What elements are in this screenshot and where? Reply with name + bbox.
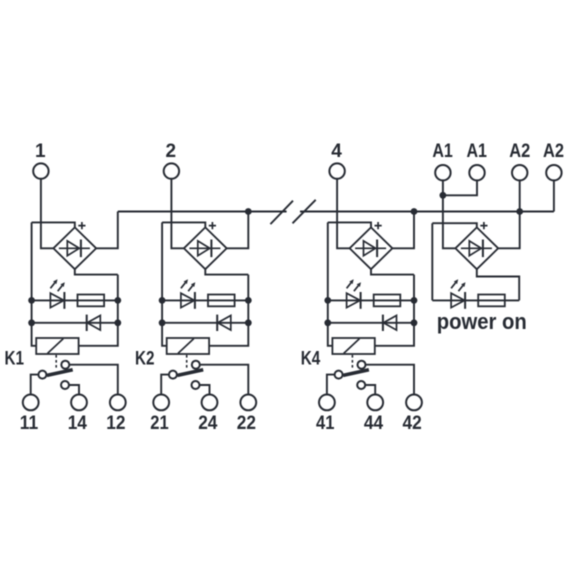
wire power left branch [431,223,433,300]
svg-text:1: 1 [35,141,46,162]
wire suppressor diode row K2 [162,322,248,324]
wire A2 to bus [519,180,521,211]
polarity + mark K1 [78,222,85,229]
wire pole to terminal 41 [327,375,335,395]
terminal 11 [23,395,39,411]
contact NO terminal point K4 [357,381,365,389]
wire NO contact to terminal 24 [200,385,210,395]
wire NC contact to terminal 42 [366,365,414,395]
terminal A1 second [469,165,484,180]
wire bridge bottom vertex to right branch K4 [371,269,414,274]
wire left branch K4 [328,222,333,345]
contact NC terminal point K1 [61,361,69,369]
svg-text:41: 41 [316,413,335,434]
wire NO contact to terminal 14 [69,385,79,395]
junction diode row left K4 [324,319,331,326]
bridge rectifier diamond power [455,227,498,269]
junction bus channel K4 [411,208,418,215]
relay coil K2 [167,338,209,354]
switch lever K4 [343,370,369,376]
diode inside bridge K1 [59,247,90,249]
wire bridge right vertex to bus K1 [96,212,118,249]
wire bridge bottom vertex to right branch K2 [205,269,248,274]
junction diode row left K2 [159,319,166,326]
LED K4 [347,293,361,307]
wire top horizontal to bridge + vertex K1 [32,222,75,227]
svg-text:22: 22 [237,413,256,434]
terminal 21 [153,395,169,411]
svg-text:power on: power on [437,309,527,334]
terminal 42 [406,395,422,411]
wire left branch K1 [32,222,37,345]
junction diode row right K1 [114,319,121,326]
wire LED row K2 [162,299,248,301]
svg-text:K4: K4 [301,349,321,370]
wire suppressor diode row K4 [328,322,414,324]
switch lever K2 [177,370,203,376]
svg-text:11: 11 [20,413,39,434]
contact NO terminal point K2 [192,381,200,389]
terminal 4 [329,163,344,178]
wire terminal 4 to bridge left vertex [337,179,350,249]
wire LED row K1 [32,299,118,301]
svg-text:21: 21 [150,413,169,434]
bridge rectifier diamond K1 [53,227,96,269]
wire right branch K1 [79,275,118,346]
wire right branch K2 [209,275,248,346]
polarity + mark K4 [375,222,382,229]
junction LED row left K2 [159,297,166,304]
wire suppressor diode row K1 [32,322,118,324]
LED K1 [50,293,64,307]
diode inside bridge power [461,247,492,249]
junction LED row left K4 [324,297,331,304]
contact NC terminal point K4 [358,361,366,369]
svg-text:A2: A2 [509,141,530,162]
wire A2 second to bus [553,180,555,211]
svg-text:K2: K2 [135,349,155,370]
wire top horizontal to bridge + vertex K4 [328,222,371,227]
wire A2 bus right segment [300,211,554,213]
terminal 14 [71,395,87,411]
polarity + mark K2 [209,222,216,229]
junction LED row left K1 [28,297,35,304]
wire bridge right vertex to bus K2 [227,212,249,249]
relay coil K1 [36,338,78,354]
terminal 44 [367,395,383,411]
terminal A2 [512,165,527,180]
junction diode row left K1 [28,319,35,326]
switch lever K1 [47,370,73,376]
terminal 41 [319,395,335,411]
bridge rectifier diamond K2 [184,227,227,269]
wire LED row K4 [328,299,414,301]
wire power top horizontal to bridge + vertex [432,223,477,227]
svg-text:4: 4 [331,141,342,162]
contact NO terminal point K1 [61,381,69,389]
svg-text:2: 2 [166,141,177,162]
wire top horizontal to bridge + vertex K2 [162,222,205,227]
mechanical link K2 [186,355,188,369]
wire A1 to bridge left vertex [443,180,456,248]
wire terminal 1 to bridge left vertex [41,179,54,249]
terminal A1 [435,165,450,180]
diode inside bridge K2 [189,247,220,249]
svg-text:K1: K1 [5,349,25,370]
terminal 2 [164,163,179,178]
wire A2 bus left segment [118,211,287,213]
svg-text:A1: A1 [466,141,487,162]
wire right branch K4 [375,275,414,346]
junction LED row right K4 [411,297,418,304]
junction bus channel K2 [245,208,252,215]
wire bridge right vertex to bus K4 [392,212,414,249]
terminal 24 [202,395,218,411]
LED K2 [181,293,195,307]
svg-text:24: 24 [198,413,218,434]
wire terminal 2 to bridge left vertex [171,179,184,249]
terminal 22 [240,395,256,411]
line break mark slash 1 [270,201,293,224]
contact NC terminal point K2 [192,361,200,369]
junction diode row right K2 [245,319,252,326]
wire pole to terminal 11 [31,375,39,395]
resistor K1 [78,295,105,307]
junction bus A2 node [516,208,523,215]
mechanical link K4 [351,355,353,369]
mechanical link K1 [55,355,57,369]
relay coil K4 [332,338,374,354]
junction LED row right K1 [114,297,121,304]
resistor K4 [374,295,401,307]
wire power bridge bottom vertex to LED row [477,269,519,300]
wire power LED row [432,299,519,301]
wire A1 second to A1 [443,180,477,195]
LED emission arrows K2 [181,283,185,289]
junction diode row right K4 [411,319,418,326]
wire power bridge right vertex to bus [498,212,520,249]
contact pole pivot K1 [38,371,46,379]
wire left branch K2 [162,222,167,345]
suppressor diode K2 [216,315,218,331]
svg-text:A2: A2 [543,141,564,162]
bridge rectifier diamond K4 [350,227,393,269]
svg-text:A1: A1 [432,141,453,162]
resistor K2 [208,295,235,307]
contact pole pivot K2 [169,371,177,379]
wire NC contact to terminal 22 [200,365,248,395]
line break mark slash 2 [293,200,316,224]
junction LED row right K2 [245,297,252,304]
terminal 12 [110,395,126,411]
suppressor diode K4 [382,315,384,331]
wire NO contact to terminal 44 [365,385,375,395]
terminal 1 [33,163,48,178]
junction A1 node [440,192,447,199]
contact pole pivot K4 [335,371,343,379]
LED emission arrows K1 [50,283,54,289]
resistor power [478,295,505,307]
terminal A2 second [546,165,561,180]
svg-text:14: 14 [68,413,88,434]
wire bridge bottom vertex to right branch K1 [75,269,118,274]
diode inside bridge K4 [355,247,386,249]
LED emission arrows power [451,283,455,289]
wire pole to terminal 21 [161,375,169,395]
LED emission arrows K4 [347,283,351,289]
suppressor diode K1 [86,315,88,331]
polarity + mark power [480,222,487,229]
wire NC contact to terminal 12 [69,365,117,395]
svg-text:12: 12 [106,413,125,434]
svg-text:44: 44 [364,413,384,434]
svg-text:42: 42 [403,413,422,434]
LED power [451,293,465,307]
